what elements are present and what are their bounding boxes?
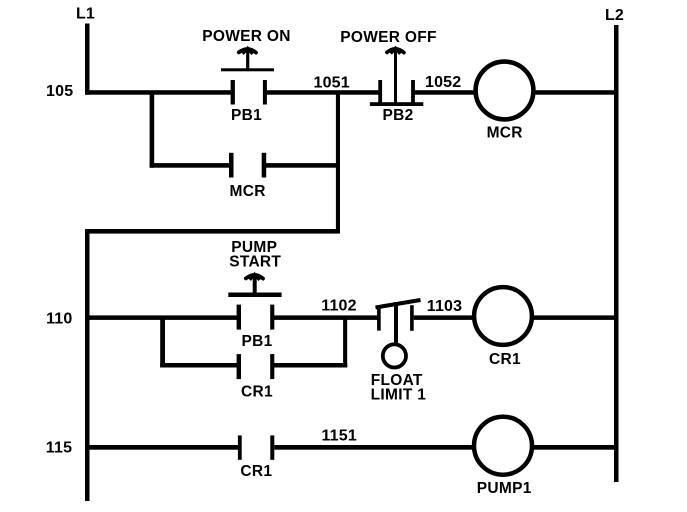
wire MCR branch left drop <box>150 94 155 168</box>
wire 1051 to left rail horizontal <box>85 229 340 234</box>
pushbutton PB1 pump-start actuator bar <box>228 293 281 298</box>
svg-text:CR1: CR1 <box>240 463 272 480</box>
svg-text:1051: 1051 <box>313 74 349 91</box>
svg-text:PB1: PB1 <box>231 107 262 124</box>
svg-text:1102: 1102 <box>321 298 357 315</box>
wire L2 rail <box>614 25 619 482</box>
wire rung 110 left segment <box>85 315 238 320</box>
wire CR1 branch left drop <box>160 318 165 368</box>
svg-text:POWER ON: POWER ON <box>202 28 291 45</box>
coil CR1 <box>474 287 532 345</box>
wire rung 105 middle segment <box>266 90 379 95</box>
contact MCR right bar <box>262 153 267 178</box>
wire rung 105 left segment <box>85 90 231 95</box>
coil MCR <box>476 62 534 120</box>
contact PB1 left bar <box>231 80 235 105</box>
float switch right bar <box>410 305 414 331</box>
contact CR1 rung115 left bar <box>238 435 242 459</box>
pushbutton PB2 mushroom actuator <box>387 48 404 104</box>
float switch FLOAT LIMIT 1 left bar <box>377 306 381 331</box>
svg-text:1103: 1103 <box>427 298 463 315</box>
contact MCR left bar <box>229 153 234 178</box>
wire MCR branch horizontal right <box>265 163 341 168</box>
wire CR1 branch horizontal left <box>160 363 239 368</box>
contact CR1 rung115 right bar <box>270 435 274 459</box>
wire rung 105 right segment <box>414 90 476 95</box>
svg-text:MCR: MCR <box>229 183 265 200</box>
svg-text:START: START <box>229 253 281 270</box>
pushbutton PB1 actuator bar <box>221 68 274 71</box>
pushbutton PB2 NC crossbar <box>370 102 423 106</box>
svg-text:MCR: MCR <box>487 125 523 142</box>
wire rung 110 right segment <box>414 315 475 320</box>
wire rung 115 right segment <box>274 445 472 450</box>
svg-text:L2: L2 <box>605 7 624 24</box>
svg-text:1052: 1052 <box>425 74 461 91</box>
svg-text:115: 115 <box>46 440 72 457</box>
svg-text:CR1: CR1 <box>489 351 521 368</box>
wire node 1051 vertical drop <box>336 94 340 234</box>
wire MCR coil to L2 rail <box>533 90 616 95</box>
contact PB2 right bar <box>411 80 415 105</box>
svg-text:CR1: CR1 <box>241 384 273 401</box>
pushbutton PB1 mushroom actuator <box>239 48 256 70</box>
contact PB1 right bar <box>263 80 267 105</box>
svg-text:110: 110 <box>46 311 72 328</box>
contact CR1 rung110 right bar <box>270 354 274 379</box>
svg-text:PB2: PB2 <box>382 107 413 124</box>
contact PB2 left bar <box>378 80 382 105</box>
wire PUMP1 coil to L2 rail <box>532 445 616 450</box>
contact PB1 rung110 left bar <box>237 305 241 330</box>
wire L1 rail <box>85 24 90 95</box>
coil PUMP1 <box>474 417 532 475</box>
wire left rail lower <box>85 229 90 501</box>
wire MCR branch horizontal left <box>150 163 231 168</box>
svg-text:POWER OFF: POWER OFF <box>340 29 437 46</box>
contact CR1 rung110 left bar <box>237 354 241 379</box>
float switch float circle <box>383 344 406 367</box>
svg-text:PUMP1: PUMP1 <box>477 480 532 497</box>
contact PB1 rung110 right bar <box>270 305 274 330</box>
float switch stem <box>394 302 398 344</box>
svg-text:L1: L1 <box>76 6 95 23</box>
svg-text:1151: 1151 <box>321 428 357 445</box>
svg-text:PB1: PB1 <box>241 333 272 350</box>
wire rung 115 left segment <box>85 445 238 450</box>
wire CR1 branch right riser <box>343 318 347 368</box>
wire CR1 branch horizontal right <box>272 363 347 368</box>
svg-text:LIMIT 1: LIMIT 1 <box>371 387 427 404</box>
wire rung 110 middle segment <box>274 315 378 320</box>
pushbutton PB1 pump-start mushroom actuator <box>246 274 263 295</box>
wire CR1 coil to L2 rail <box>532 315 616 320</box>
svg-text:105: 105 <box>46 83 73 100</box>
float switch diagonal lever <box>376 300 421 308</box>
